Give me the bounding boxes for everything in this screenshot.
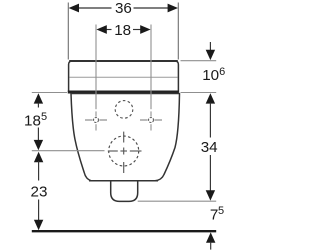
extension line 36 right: [177, 3, 179, 60]
svg-text:18: 18: [114, 22, 131, 39]
extension line tank-bottom right: [181, 92, 217, 94]
extension line 36 left: [67, 3, 69, 60]
bowl bottom edge over outlet: [89, 180, 158, 182]
svg-text:5: 5: [218, 205, 224, 217]
dimension 34 right: [201, 93, 218, 200]
extension line tank-top right: [181, 60, 217, 62]
bolt symbol right: [140, 118, 162, 123]
dimension 18: [96, 22, 150, 39]
large dashed circle (supply connection): [109, 136, 139, 166]
bowl outline: [71, 94, 180, 181]
svg-text:23: 23: [31, 183, 48, 200]
svg-text:6: 6: [219, 66, 225, 78]
extension line tank-bottom left: [32, 92, 67, 94]
supply crosshair: [108, 132, 142, 173]
tank bottom thick edge: [68, 91, 179, 94]
svg-text:34: 34: [201, 139, 218, 156]
outlet stub: [111, 181, 138, 201]
svg-text:10: 10: [202, 67, 219, 84]
tank seam line: [70, 76, 178, 78]
bolt symbol left: [85, 118, 107, 123]
dimension 10.6 right: [202, 42, 225, 84]
cistern tank body: [69, 61, 179, 93]
dimension 23 left: [31, 152, 48, 230]
dimension 7.5 right: [206, 205, 224, 249]
floor line: [32, 230, 216, 232]
bolt centerline right: [150, 25, 152, 110]
svg-text:5: 5: [41, 111, 47, 123]
dimension 18.5 left: [24, 93, 47, 150]
small dashed circle (lid hole): [115, 101, 133, 119]
svg-text:18: 18: [24, 112, 41, 129]
bolt centerline left: [95, 25, 97, 110]
svg-text:36: 36: [115, 0, 132, 17]
dimension 36: [69, 0, 178, 17]
extension line supply left: [32, 150, 105, 152]
extension line outlet-bottom right: [138, 200, 217, 202]
